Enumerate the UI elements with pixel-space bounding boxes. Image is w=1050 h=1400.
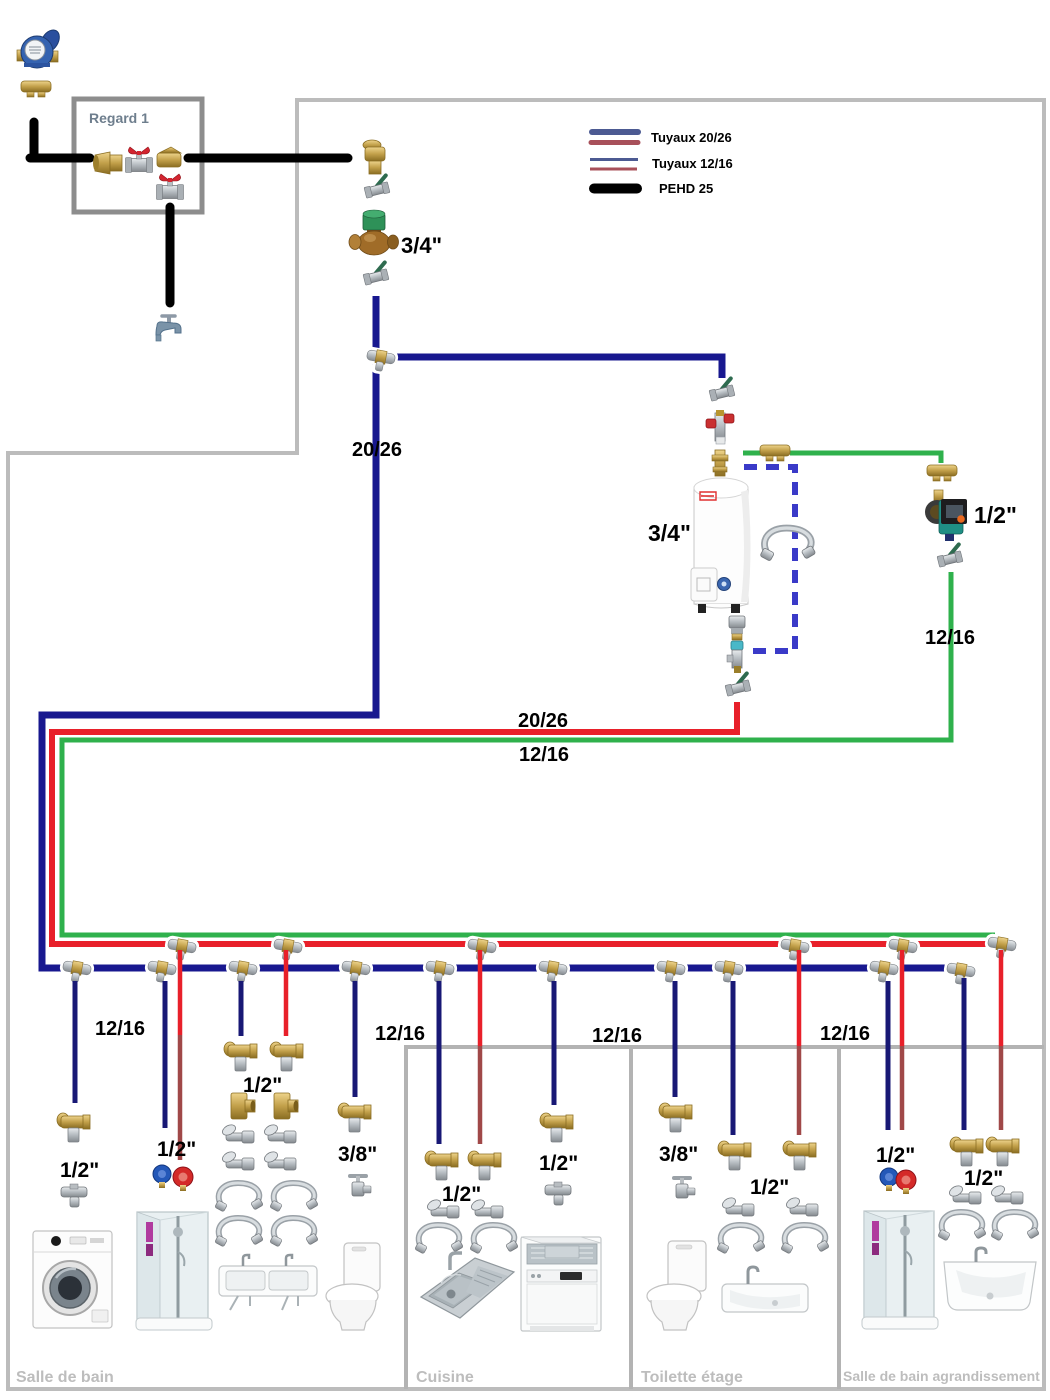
ball valve heater cold [707,378,735,401]
tee red 3 [462,935,500,966]
svg-text:12/16: 12/16 [820,1023,870,1045]
double washbasin [219,1255,317,1310]
tee red 1 [162,935,200,966]
water heater [691,478,751,613]
wc sdb wall valve [338,1103,371,1132]
legend bar 20/26 red [591,140,638,145]
legend bar PEHD [594,184,637,194]
flexible hose heater [760,528,816,561]
svg-text:1/2": 1/2" [974,502,1017,528]
lave-mains valve hot [783,1141,816,1170]
tee blue 5 [420,957,458,988]
sink sdb angle valve 4 [263,1150,296,1170]
drop hot lave-mains [797,950,802,1046]
svg-text:1/2": 1/2" [876,1144,915,1167]
shower cabin sdb2 [862,1211,938,1329]
sdb2 angle valve 2 [990,1184,1023,1204]
dashed blue bypass [744,467,795,651]
regard brass coupling [93,152,122,174]
pressure reducer 3/4 [349,210,399,255]
sink sdb hose 4 [270,1218,319,1247]
svg-text:Salle de bain: Salle de bain [16,1369,114,1386]
svg-text:3/4": 3/4" [401,233,442,258]
dishwasher tap tee [545,1182,571,1205]
svg-text:12/16: 12/16 [592,1025,642,1047]
svg-text:Cuisine: Cuisine [416,1369,474,1386]
thermostatic mixer [706,410,734,444]
drop hot basin sdb2 [999,950,1004,1046]
pipe 12/16 green to pump [790,453,941,463]
svg-text:20/26: 20/26 [518,710,568,732]
wc etage stop valve [674,1178,695,1198]
elbow blue end [941,959,979,990]
drop cold dishwasher [552,981,557,1105]
sdb2 angle valve 1 [948,1184,981,1204]
green manifold left [760,445,790,461]
pipe 12/16 green return main [62,572,995,935]
drop cold wc sdb [353,981,358,1097]
tee blue 1 [57,957,95,988]
sink sdb tee hot [274,1093,299,1119]
svg-text:1/2": 1/2" [60,1159,99,1182]
sdb2 hose 1 [938,1212,987,1241]
drop cold wc etage [673,981,678,1097]
toilet etage [647,1241,706,1330]
PEHD pipe from meter [30,122,90,158]
washer wall valve [57,1113,90,1142]
room divider cuisine left [404,1047,408,1389]
lave-mains basin [722,1267,808,1312]
sdb2 basin valve cold [950,1137,983,1166]
pipe 20/26 cold main riser [42,296,961,968]
svg-text:PEHD 25: PEHD 25 [659,181,713,196]
shower cap hot [173,1167,193,1191]
regard box [74,99,202,212]
shower cabin sdb [136,1212,212,1330]
drop hot shower sdb [178,950,183,1035]
lave-mains valve cold [718,1141,751,1170]
washer tap tee [61,1184,87,1207]
svg-text:12/16: 12/16 [95,1018,145,1040]
kitchen sink [421,1253,514,1318]
drop cold shower sdb2 [886,981,891,1130]
shower cap cold [153,1165,171,1188]
evier hose 1 [415,1225,464,1254]
svg-text:1/2": 1/2" [750,1176,789,1199]
lave-mains angle valve 1 [721,1196,754,1216]
wall plate elbow inlet [363,140,385,174]
lave-mains hose 2 [781,1225,830,1254]
meter union manifold [21,81,51,97]
room divider toilette/sdb2 [837,1047,841,1389]
legend bar 20/26 blue [592,129,638,135]
legend bar 12/16 blue [590,158,638,161]
lave-mains hose 1 [717,1225,766,1254]
tee blue 9 [864,957,902,988]
garden faucet [156,316,181,341]
pipe 20/26 branch to heater [376,357,722,378]
drop cold sink sdb [239,981,244,1036]
svg-text:Regard 1: Regard 1 [89,110,149,126]
tee blue 4 [336,957,374,988]
drop cold basin sdb2 [962,978,967,1130]
evier angle valve 1 [426,1198,459,1218]
ball valve below reducer [361,262,389,285]
sink sdb angle valve 3 [221,1150,254,1170]
regard valve 2 red wing [157,174,184,200]
drop cold shower sdb [163,981,168,1128]
room divider cuisine/toilette [629,1047,633,1389]
washing machine [33,1231,112,1328]
svg-text:1/2": 1/2" [539,1152,578,1175]
sdb2 hose 2 [991,1212,1040,1241]
tee blue 7 [651,957,689,988]
svg-text:Toilette étage: Toilette étage [641,1369,743,1386]
sink sdb hose 2 [270,1183,319,1212]
wc etage wall valve [659,1103,692,1132]
tee red 4 [775,935,813,966]
dishwasher valve [540,1113,573,1142]
sink sdb valve cold [224,1042,257,1071]
toilet sdb [326,1243,380,1330]
evier valve cold [425,1151,458,1180]
ball valve heater drain [723,673,751,696]
drop cold lave-mains [731,981,736,1135]
pipe 12/16 green loop at heater [743,451,762,456]
brass inlet fitting heater [712,450,728,476]
svg-text:Salle de bain agrandissement: Salle de bain agrandissement [843,1368,1040,1384]
pipe 20/26 hot from heater [52,702,998,944]
PEHD pipe to garden tap [166,207,175,303]
safety group heater [727,641,743,673]
legend bar 12/16 red [590,168,637,171]
tee blue 3 [223,957,261,988]
evier angle valve 2 [470,1198,503,1218]
sdb2 shower cap cold [880,1168,898,1191]
lave-mains angle valve 2 [785,1196,818,1216]
svg-text:12/16: 12/16 [925,627,975,649]
svg-text:Tuyaux 12/16: Tuyaux 12/16 [652,156,733,171]
drop cold evier cuisine [437,981,442,1144]
evier hose 2 [470,1225,519,1254]
svg-text:1/2": 1/2" [157,1138,196,1161]
tee on riser [361,346,399,377]
drop hot shower sdb2 [900,950,905,1046]
svg-text:Tuyaux 20/26: Tuyaux 20/26 [651,130,732,145]
tee blue 8 [709,957,747,988]
sdb2 washbasin [944,1248,1036,1310]
regard brass tee [157,147,181,167]
water meter [17,27,63,68]
svg-text:12/16: 12/16 [375,1023,425,1045]
sink sdb angle valve 1 [221,1123,254,1143]
ball valve below inlet [362,175,390,198]
room divider horizontal [404,1045,1044,1049]
svg-text:3/8": 3/8" [338,1143,377,1166]
regard valve 1 red wing [126,147,153,173]
tee blue 2 [142,957,180,988]
drop hot sink sdb [284,950,289,1036]
sdb2 shower cap hot [896,1170,916,1194]
sink sdb angle valve 2 [263,1123,296,1143]
wc sdb stop valve [350,1176,371,1196]
PEHD pipe to house [188,154,348,163]
chrome union below heater [729,616,745,640]
ball valve below pump [935,544,963,567]
sink sdb hose 1 [215,1183,264,1212]
tee blue 6 [533,957,571,988]
svg-text:12/16: 12/16 [519,744,569,766]
tee red 2 [268,935,306,966]
svg-text:20/26: 20/26 [352,439,402,461]
dishwasher [521,1237,601,1331]
tee red 5 [883,935,921,966]
svg-text:3/8": 3/8" [659,1143,698,1166]
sink sdb hose 3 [215,1218,264,1247]
sink sdb valve hot [270,1042,303,1071]
svg-text:3/4": 3/4" [648,520,691,546]
tee green-red end [982,933,1020,964]
evier valve hot [468,1151,501,1180]
drop hot evier cuisine [478,950,483,1046]
circulator pump [925,490,967,541]
sdb2 basin valve hot [986,1137,1019,1166]
sink sdb tee cold [231,1093,256,1119]
green manifold right [927,465,957,481]
